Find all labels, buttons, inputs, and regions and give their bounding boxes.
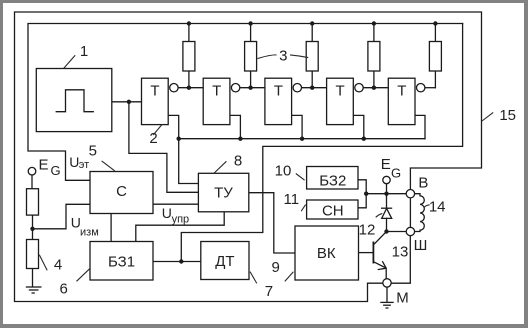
- wire: C down to БЗ1: [110, 214, 112, 242]
- wire: counter output bus: [179, 138, 425, 140]
- svg-text:В: В: [418, 174, 428, 191]
- wire: БЗ2 output to Eг node: [358, 180, 366, 194]
- svg-text:СН: СН: [322, 203, 344, 220]
- node БЗ2-СН: [364, 192, 368, 196]
- wire: bus tap down into ТУ: [179, 139, 199, 184]
- svg-text:T: T: [274, 83, 283, 100]
- wire: T1 output drop to bus: [168, 115, 179, 138]
- svg-text:9: 9: [272, 259, 280, 276]
- wire: М circle down to ground: [386, 287, 388, 302]
- leader 7: [250, 272, 257, 284]
- wire: Uизм tap to C: [33, 204, 91, 229]
- svg-text:ВК: ВК: [317, 245, 336, 262]
- inverter bubble T2: [231, 84, 239, 92]
- svg-text:E: E: [381, 156, 391, 173]
- node divider Uизм: [30, 227, 34, 231]
- wire: resistor 3 leads: [311, 24, 313, 88]
- svg-text:12: 12: [359, 221, 376, 238]
- block C comparator: [90, 172, 153, 214]
- svg-text:БЗ1: БЗ1: [108, 254, 135, 271]
- svg-text:БЗ2: БЗ2: [319, 173, 346, 190]
- wire: Eг terminal stem: [386, 184, 388, 194]
- svg-text:T: T: [397, 83, 406, 100]
- inverter bubble T4: [355, 84, 363, 92]
- wire: zener bottom stem: [386, 218, 388, 231]
- node rail-R5: [433, 21, 437, 25]
- wire: divider bottom to ground: [32, 269, 34, 287]
- wire: ТУ output to ВК: [249, 193, 295, 253]
- wire: left Eг terminal stem: [31, 175, 33, 189]
- inverter bubble T5: [417, 84, 425, 92]
- resistor R1: [183, 42, 195, 72]
- svg-text:6: 6: [60, 281, 68, 298]
- flip-flop T3: [265, 78, 292, 124]
- svg-text:14: 14: [429, 199, 446, 216]
- svg-text:T: T: [150, 83, 159, 100]
- divider resistor upper: [27, 189, 39, 215]
- svg-text:C: C: [116, 183, 127, 200]
- svg-text:4: 4: [54, 257, 62, 274]
- node bus-T4: [362, 137, 366, 141]
- winding 14 coil: [415, 194, 425, 232]
- terminal Eг left: [28, 167, 36, 175]
- wire: resistor 4 leads: [373, 24, 375, 88]
- inverter bubble T3: [293, 84, 301, 92]
- node R1-T2: [187, 86, 191, 90]
- inverter bubble T1: [170, 84, 178, 92]
- svg-text:8: 8: [234, 153, 242, 170]
- wire: resistor 2 leads: [250, 24, 252, 88]
- node rail-R1: [187, 21, 191, 25]
- svg-text:T: T: [336, 83, 345, 100]
- block СН: [307, 200, 358, 219]
- wire: T3 output drop to bus: [292, 115, 303, 138]
- leader 6: [77, 269, 90, 282]
- wire: right rail descent to БЗ1-ДТ node: [181, 24, 462, 262]
- wire: T2 to T3: [240, 87, 265, 89]
- wire: T2 output drop to bus: [230, 115, 241, 138]
- resistor R5: [429, 42, 441, 72]
- svg-text:U: U: [162, 205, 172, 221]
- node БЗ1-ДТ: [179, 259, 183, 263]
- ground symbol left divider: [26, 287, 42, 293]
- svg-text:G: G: [391, 165, 401, 180]
- block БЗ2: [307, 167, 358, 190]
- svg-text:ТУ: ТУ: [214, 185, 233, 202]
- wire: top supply rail with left bend feeding Uэт into C: [28, 24, 463, 181]
- terminal М: [383, 279, 391, 287]
- svg-text:упр: упр: [172, 214, 190, 226]
- node bus-T3: [300, 137, 304, 141]
- block 1 pulse generator: [36, 69, 112, 132]
- wire: resistor 5 leads: [434, 24, 436, 88]
- wire: generator output to T1: [112, 101, 142, 103]
- wire: T5 output to resistor 5 lead: [425, 87, 435, 89]
- wire: БЗ1 to ДТ: [153, 261, 201, 263]
- leader 10: [296, 174, 305, 181]
- terminal Eг right: [383, 176, 390, 183]
- leader 8: [214, 161, 226, 173]
- svg-text:1: 1: [80, 43, 88, 60]
- svg-text:Ш: Ш: [414, 237, 428, 254]
- wire: outer device boundary loop (block 15) from terminal В around to terminal М: [15, 12, 482, 302]
- node Eг-В: [384, 192, 388, 196]
- flip-flop T4: [327, 78, 354, 124]
- block БЗ1: [90, 242, 153, 281]
- leader 11: [301, 205, 305, 212]
- svg-text:11: 11: [284, 191, 300, 208]
- svg-text:15: 15: [499, 107, 516, 124]
- resistor R2: [245, 42, 257, 72]
- node generator output: [127, 100, 131, 104]
- emitter arrow: [378, 261, 387, 269]
- wire: В-Ш terminal link: [409, 198, 411, 227]
- wire: T1 to T2 with resistor junction: [178, 87, 203, 89]
- wire: Ш terminal drop to М: [391, 236, 410, 284]
- leader 4: [39, 255, 47, 271]
- leader 3 right: [290, 55, 308, 58]
- svg-text:эт: эт: [79, 159, 89, 171]
- svg-text:T: T: [212, 83, 221, 100]
- node bus-T1: [177, 137, 181, 141]
- svg-text:ДТ: ДТ: [215, 253, 234, 270]
- leader 12: [376, 214, 383, 218]
- svg-text:13: 13: [392, 244, 409, 261]
- leader 5: [102, 161, 115, 171]
- resistor R4: [368, 42, 380, 72]
- resistor R3: [306, 42, 318, 72]
- terminal Ш: [406, 227, 414, 235]
- svg-text:10: 10: [275, 162, 292, 179]
- flip-flop T1: [142, 78, 169, 124]
- wire: T4 to T5: [363, 87, 388, 89]
- transistor Q 13: [373, 232, 386, 279]
- node R2-T3: [248, 86, 252, 90]
- wire: zener top stem: [386, 194, 388, 209]
- wire: Eг node horizontal to В terminal: [366, 193, 406, 195]
- node rail-R3: [310, 21, 314, 25]
- block ТУ: [198, 173, 248, 212]
- wire: ТУ bottom Uупр to БЗ1: [136, 212, 224, 242]
- ground symbol М: [380, 302, 393, 308]
- svg-text:М: М: [396, 290, 409, 307]
- svg-text:E: E: [38, 157, 48, 174]
- svg-text:изм: изм: [80, 227, 99, 239]
- node collector-Ш: [384, 229, 388, 233]
- wire: T5 output drop to bus right end: [415, 115, 425, 138]
- block ДТ: [201, 242, 249, 280]
- leader 1: [64, 55, 75, 68]
- flip-flop T5: [388, 78, 415, 124]
- leader 15: [482, 112, 493, 121]
- node rail-R4: [372, 21, 376, 25]
- node rail-R2: [248, 21, 252, 25]
- block ВК: [295, 226, 359, 280]
- wire: divider middle link: [32, 215, 34, 239]
- wire: C to ТУ: [153, 203, 198, 205]
- node R3-T4: [310, 86, 314, 90]
- wire: resistor 1 leads: [188, 24, 190, 88]
- terminal В: [406, 190, 414, 198]
- leader lines: [39, 55, 493, 284]
- wire: generator tap stair to ТУ: [129, 102, 199, 193]
- wire: СН output to Eг node: [358, 194, 366, 208]
- svg-text:G: G: [50, 163, 60, 178]
- svg-text:5: 5: [89, 142, 97, 159]
- pulse waveform inside generator: [56, 90, 94, 112]
- leader 9: [285, 272, 294, 282]
- zener diode VD 12: [381, 208, 392, 218]
- svg-text:3: 3: [279, 47, 287, 64]
- leader 14: [424, 205, 429, 207]
- leader 2: [153, 125, 162, 136]
- leader 3 left: [257, 55, 276, 59]
- node bus-T2: [238, 137, 242, 141]
- svg-text:2: 2: [149, 130, 157, 147]
- wire: ВК output to transistor base: [359, 252, 373, 254]
- wire: T3 to T4: [302, 87, 327, 89]
- node R4-T5: [372, 86, 376, 90]
- svg-text:7: 7: [265, 283, 273, 300]
- wire: T4 output drop to bus: [353, 115, 364, 138]
- wire: Ш node to Ш terminal: [387, 231, 407, 233]
- flip-flop T2: [203, 78, 230, 124]
- divider resistor 4 lower: [27, 240, 39, 269]
